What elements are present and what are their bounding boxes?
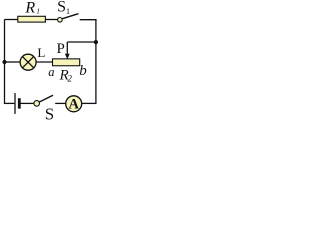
svg-text:2: 2 [67, 74, 72, 84]
svg-text:S: S [57, 0, 66, 15]
svg-text:S: S [45, 105, 54, 121]
svg-text:L: L [37, 45, 45, 60]
svg-text:P: P [57, 41, 65, 57]
svg-text:1: 1 [66, 6, 70, 16]
svg-text:a: a [48, 65, 54, 79]
svg-text:A: A [69, 97, 80, 113]
svg-text:1: 1 [36, 7, 40, 16]
svg-text:R: R [24, 0, 35, 17]
svg-text:b: b [79, 63, 87, 79]
